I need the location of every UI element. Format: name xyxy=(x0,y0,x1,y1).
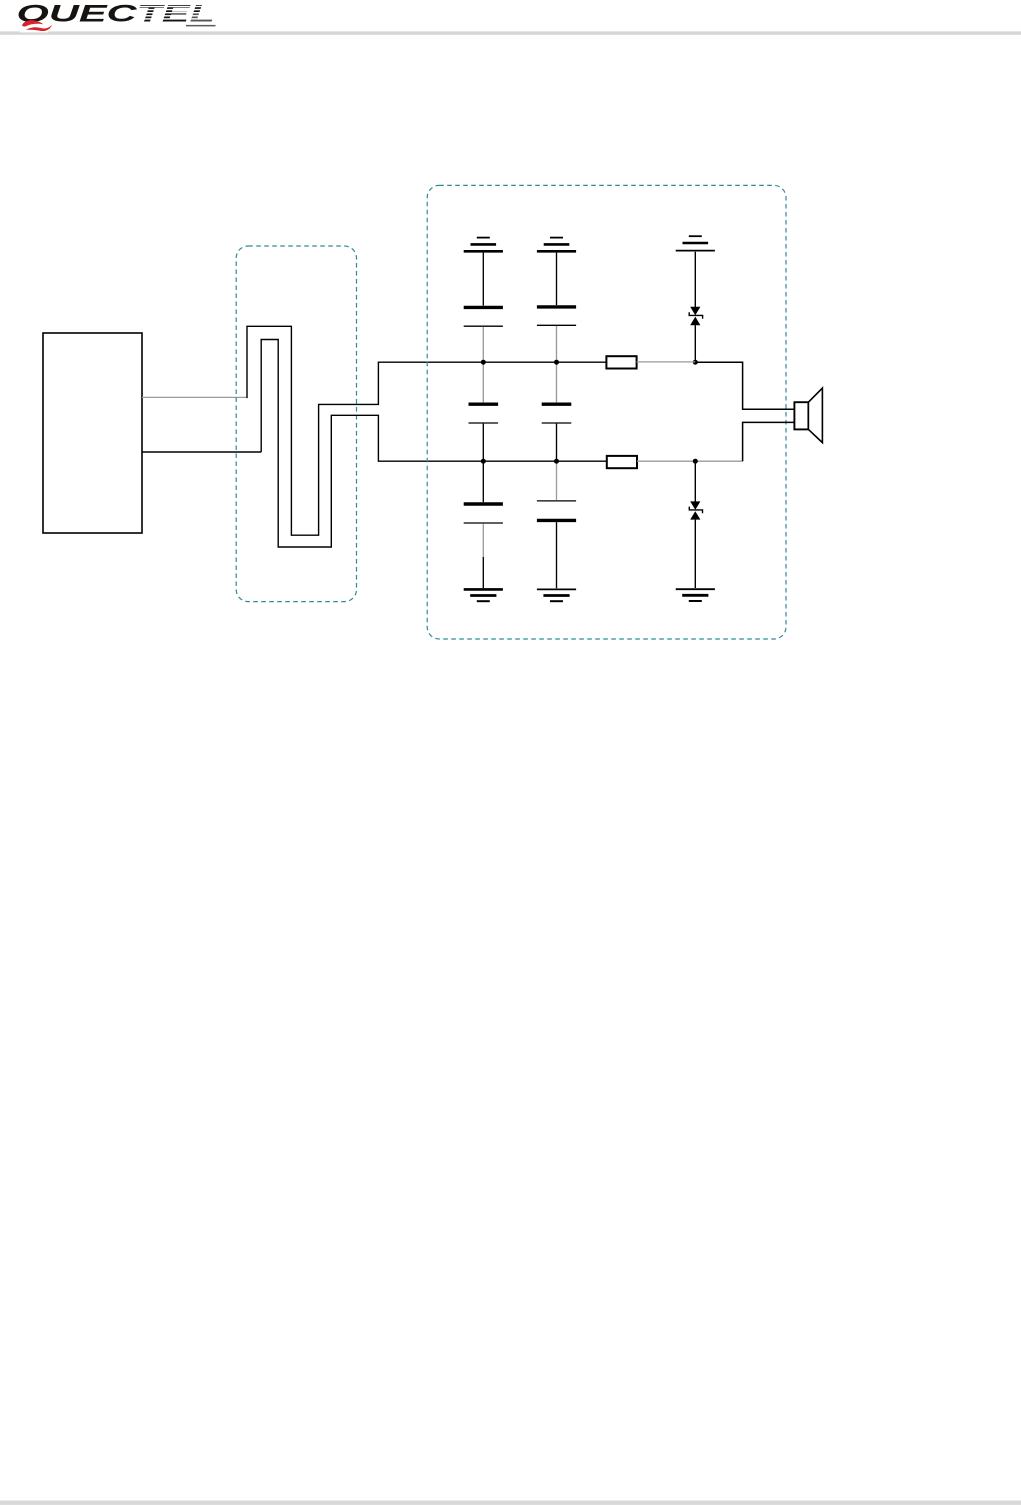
header rule xyxy=(0,31,1021,34)
capacitor bottom column 1 xyxy=(464,461,503,588)
ground (bottom of TVS column) xyxy=(676,589,715,601)
wire R1 to node (gray) xyxy=(637,361,696,363)
wire meander trace A + top rail xyxy=(247,326,606,535)
TVS diode D2 (bottom) xyxy=(689,461,702,588)
footer rule xyxy=(0,1501,1021,1505)
ground (inverted, top of column 2) xyxy=(537,238,576,252)
node C2 top xyxy=(554,360,559,365)
capacitor mid column 2 xyxy=(542,362,572,461)
Quectel logo xyxy=(17,1,218,33)
differential meander routing box (dashed) xyxy=(236,246,356,602)
capacitor mid column 1 xyxy=(469,362,499,461)
node SPK+ / TVS xyxy=(693,360,698,365)
TVS diode D1 (top) xyxy=(689,252,702,362)
RF filter box (dashed) xyxy=(427,185,786,639)
node C1 bottom xyxy=(481,459,486,464)
resistor R1 (top) xyxy=(606,356,636,368)
wire bend to speaker (bottom) xyxy=(743,422,795,461)
wire module pin SPK+ (gray) xyxy=(142,396,247,398)
node C1 top xyxy=(481,360,486,365)
capacitor bottom column 2 xyxy=(537,461,576,588)
ground (inverted, top of column 1) xyxy=(464,238,503,252)
speaker xyxy=(794,388,822,443)
ground (inverted, top of TVS column) xyxy=(676,236,715,250)
wire module pin SPK- xyxy=(142,451,261,453)
capacitor top column 2 xyxy=(537,253,576,362)
module block xyxy=(43,333,142,533)
capacitor top column 1 xyxy=(464,253,503,362)
wire R2 to bend (gray) xyxy=(637,460,743,462)
wire node to speaker (top) xyxy=(695,362,794,409)
ground (bottom of column 1) xyxy=(464,589,503,601)
node C2 bottom xyxy=(554,459,559,464)
resistor R2 (bottom) xyxy=(607,456,637,468)
ground (bottom of column 2) xyxy=(537,589,576,601)
wire meander trace B + bottom rail xyxy=(261,340,607,548)
node TVS bottom xyxy=(693,459,698,464)
